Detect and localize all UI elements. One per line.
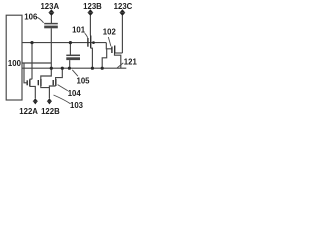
transistor QB gate bar [37, 80, 39, 85]
leader lines [37, 17, 123, 103]
node rail-Q101 [91, 67, 94, 70]
leader 104 [58, 85, 68, 91]
svg-text:100: 100 [8, 59, 22, 68]
transistor QB channel bar [40, 79, 42, 86]
terminal arrow 122A [33, 98, 38, 104]
svg-text:122A: 122A [19, 107, 38, 116]
svg-text:101: 101 [72, 25, 86, 34]
svg-text:105: 105 [76, 77, 90, 86]
wire rail 121 [22, 67, 126, 69]
leader 102 [108, 37, 111, 46]
tick 122A [33, 100, 38, 102]
svg-text:121: 121 [124, 57, 138, 66]
wire QA source to 122A [30, 86, 36, 98]
leader 103 [54, 95, 71, 104]
wire QA gate lead [24, 63, 27, 83]
node W1-x93.8 [92, 41, 95, 44]
transistor Q102 gate bar [111, 47, 113, 54]
labels [8, 2, 138, 116]
wire 123C lead [121, 15, 123, 53]
node W1-x32 [30, 41, 33, 44]
leader 106 [37, 17, 43, 23]
wire vertical x32 [31, 43, 33, 80]
node rail-x62 [61, 67, 64, 70]
leader 105 [72, 70, 78, 76]
terminal arrows [33, 9, 125, 104]
wire Q102 source [115, 54, 121, 69]
wire W1 corner to Q102 gate [106, 43, 112, 49]
svg-text:104: 104 [68, 89, 82, 98]
wire W2 middle [22, 62, 51, 64]
transistor QA channel bar [29, 79, 31, 86]
terminal arrow 123B [88, 9, 94, 16]
terminal arrow 122B [47, 98, 52, 104]
wire QB source [41, 86, 50, 88]
svg-text:106: 106 [24, 12, 38, 21]
transistor QC channel bar [55, 79, 57, 86]
wire Q102 drain [115, 52, 122, 54]
tick 123B [88, 12, 93, 14]
wire W1 top rail [22, 42, 106, 44]
capacitor C105 bottom lead [69, 60, 71, 68]
wire gate node down-jog [102, 49, 107, 68]
svg-text:123C: 123C [114, 2, 133, 11]
svg-text:122B: 122B [41, 107, 60, 116]
transistor QC gate bar [52, 80, 54, 85]
wire QC source to 122B [49, 86, 55, 98]
wire 123A lead [50, 15, 52, 23]
arrow cross ticks [33, 13, 125, 102]
terminal arrow 123C [120, 9, 126, 16]
capacitor C105 top lead [69, 43, 71, 56]
wire QA drain jog [30, 78, 32, 80]
transistor Q102 channel bar [114, 46, 116, 54]
transistor Q101 gate bar [87, 38, 89, 47]
svg-text:123B: 123B [83, 2, 102, 11]
capacitor C106 [44, 23, 58, 25]
terminal arrow 123A [49, 9, 55, 16]
tick 123A [49, 12, 54, 14]
block 100 box [6, 15, 22, 100]
svg-text:103: 103 [70, 101, 84, 110]
leader 101 [85, 33, 88, 38]
wire C106 to W1 to rail [50, 28, 52, 68]
transistor Q101 channel bar [90, 36, 92, 49]
transistor QA gate bar [26, 80, 28, 85]
capacitor C105 [66, 54, 80, 56]
junction dots [30, 41, 103, 70]
svg-text:102: 102 [103, 28, 117, 37]
wire Q101 source [91, 48, 93, 68]
wire QB drain jog [41, 68, 52, 79]
node W1-C105 [69, 41, 72, 44]
node rail-x47 [50, 67, 53, 70]
wire 123B lead [89, 15, 91, 35]
wire QC drain feed [56, 68, 63, 79]
tick 123C [120, 12, 125, 14]
node rail-x102 [101, 67, 104, 70]
leader 121 [117, 63, 123, 68]
tick 122B [47, 100, 52, 102]
node rail-C105 [68, 67, 71, 70]
svg-text:123A: 123A [40, 2, 59, 11]
